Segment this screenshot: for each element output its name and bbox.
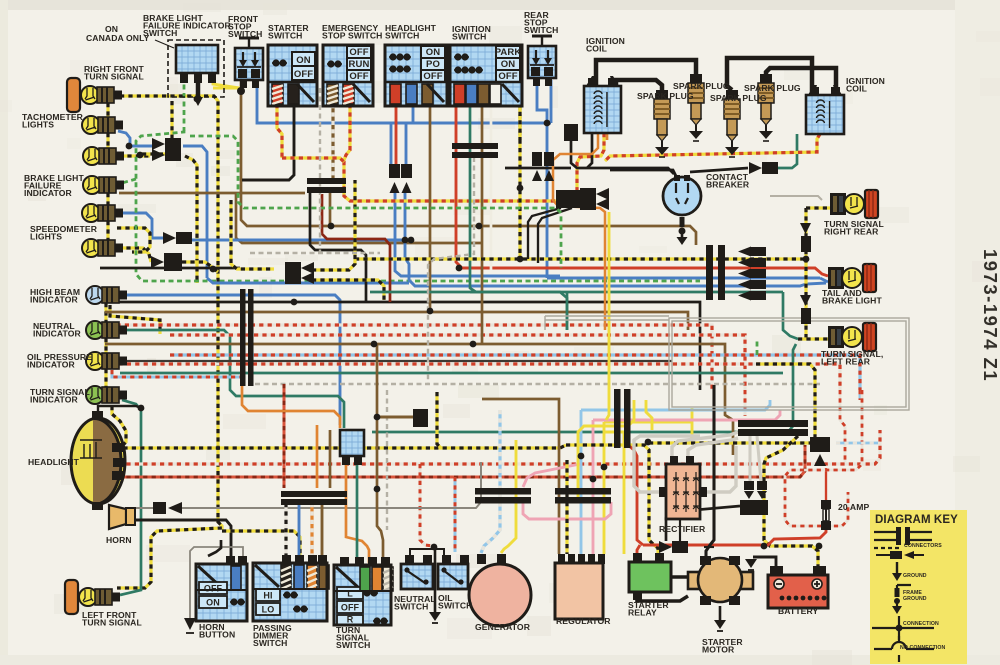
connector arrow centre 4: [738, 280, 751, 290]
connector box black small: [564, 124, 578, 141]
bulb: left front turn signal: [79, 588, 120, 606]
connector arrow coil 2: [580, 198, 596, 210]
wire: starter switch black drop: [242, 104, 294, 180]
switch: oil pressure: [438, 555, 469, 589]
regulator: [555, 554, 605, 619]
wire: left bar down bw: [284, 503, 287, 558]
rectifier: [659, 456, 707, 519]
wire: yb chain oil-ts: [104, 369, 107, 387]
svg-text:RUN: RUN: [349, 59, 370, 70]
junction 17: [210, 266, 217, 273]
svg-text:LIGHTS: LIGHTS: [22, 120, 54, 130]
wire: gray dash x320: [319, 88, 321, 253]
connector arrow speedo 2: [151, 256, 164, 268]
arrow right rear 1: [800, 223, 811, 234]
svg-text:OFF: OFF: [294, 69, 313, 80]
wire: black run y302: [103, 302, 700, 390]
wire: blue/red down: [859, 390, 862, 400]
wire: red/white dash y364: [110, 364, 840, 390]
wire: white pair down B: [757, 436, 761, 482]
wire: neutral bracket dash: [420, 464, 433, 546]
flasher relay: [340, 430, 364, 465]
connector box right rear 1: [801, 236, 811, 252]
lamp: turn signal right rear: [830, 190, 878, 218]
starter motor: [688, 556, 753, 605]
svg-text:ON: ON: [426, 47, 440, 58]
bulb: turn signal indicator: [86, 386, 127, 404]
wire: green dash right: [756, 340, 759, 355]
junction 10: [427, 308, 434, 315]
wire: rectifier white left: [634, 436, 700, 492]
svg-text:GROUND: GROUND: [903, 596, 927, 602]
svg-text:BREAKER: BREAKER: [706, 180, 750, 190]
wire: coil L black drop: [587, 133, 592, 168]
junction 13: [456, 265, 463, 272]
wire: long brown y344: [105, 344, 725, 390]
wire: oil pressure hatch down: [112, 370, 240, 377]
connector box up-arrow B: [401, 164, 412, 178]
wire: coil R green to breaker: [768, 134, 797, 168]
wire: orange bars to flasher: [242, 386, 340, 428]
wire: yellow/black main horizontal y259: [355, 257, 806, 260]
wire: black bar down: [310, 193, 366, 302]
wire: yb mid vertical x520 up: [518, 95, 521, 140]
connector arrow speedo: [163, 232, 176, 244]
wire: yellow horiz y432: [604, 432, 624, 448]
switch: ignition: [450, 45, 522, 106]
junction 11: [138, 405, 145, 412]
svg-text:TURN SIGNAL: TURN SIGNAL: [84, 72, 144, 82]
wire: yb chain speedo12: [106, 221, 109, 240]
wire: tach connector blue run: [183, 146, 207, 278]
wire: brown down x725: [725, 390, 733, 455]
wire: yellow/black L starter relay: [566, 445, 658, 553]
wire: yellow loop rect 2: [646, 400, 652, 430]
junction 14: [578, 453, 585, 460]
junction 27: [408, 237, 415, 244]
wire: yb right down x815: [756, 364, 815, 437]
wire: yb arrowconn right 2: [312, 280, 384, 300]
junction 6: [816, 543, 823, 550]
svg-text:HORN: HORN: [106, 535, 132, 545]
wire: green dash speedo: [136, 130, 700, 281]
svg-text:GENERATOR: GENERATOR: [475, 622, 531, 632]
wire: yellow x624 down: [623, 448, 626, 554]
wire: ts indicator yb: [112, 406, 126, 448]
wire: white pair down A: [748, 436, 751, 482]
svg-text:BUTTON: BUTTON: [199, 630, 235, 640]
bulb: high beam indicator: [86, 286, 127, 304]
svg-text:RELAY: RELAY: [628, 608, 657, 618]
junction 5: [645, 439, 652, 446]
spark plug 2: [688, 74, 704, 141]
connector bar pair left bottom: [281, 491, 347, 497]
wire: left bar down blue: [298, 503, 301, 558]
wire: lightblue generator feed: [481, 410, 500, 553]
wire: right front turn signal yellow/black: [117, 96, 222, 588]
wire: brown branch 236: [236, 193, 482, 243]
lamp: turn signal left rear: [828, 323, 876, 351]
wire: rw dash ladder right: [785, 390, 862, 526]
wire: headlight dark red feed: [118, 445, 805, 477]
wire: blue/red dash y355: [170, 355, 860, 390]
svg-text:INDICATOR: INDICATOR: [27, 360, 76, 370]
wire: brake fail switch green dash: [183, 76, 186, 131]
wire: speedo yb jumper: [117, 228, 150, 252]
wire: brake fail switch yellow: [213, 76, 240, 88]
svg-text:SWITCH: SWITCH: [268, 31, 303, 41]
switch: emergency stop: [323, 45, 373, 106]
wire: blue conn drop B2: [405, 193, 826, 286]
wire: coil L HT lead 1: [596, 60, 696, 86]
wire: headlight blue drop: [412, 106, 415, 123]
wire: ignition brown drop: [481, 106, 484, 344]
wire: yb chain fail-speedo: [106, 193, 109, 205]
connector bars lower mid: [614, 389, 621, 448]
connector arrow centre 5: [738, 291, 751, 301]
wire: left bar down brown: [321, 503, 324, 558]
bulb: right front turn signal: [81, 86, 122, 104]
junction 16: [601, 464, 608, 471]
wire: teal to left rear: [783, 292, 798, 339]
frame: harness gray extension: [545, 316, 669, 330]
wire: turn signal indicator teal: [120, 400, 141, 595]
connector box brown mid: [413, 409, 428, 427]
svg-text:COIL: COIL: [846, 84, 867, 94]
svg-text:ON: ON: [206, 598, 220, 608]
wire: coil R HT lead 1: [727, 58, 812, 95]
wire: yellow horiz y422: [604, 421, 692, 424]
junction 7: [761, 543, 768, 550]
junction 8: [371, 341, 378, 348]
wire: red/white dash y335: [170, 335, 745, 390]
connector horn box-arrow: [153, 502, 166, 514]
wire: brown box stub: [377, 416, 413, 419]
ground: bottom switches: [434, 550, 437, 612]
svg-text:ON: ON: [501, 59, 515, 70]
svg-text:SPARK PLUG: SPARK PLUG: [710, 93, 767, 103]
bulb: speedometer light 2: [82, 239, 123, 257]
wire: lb dash fuse: [836, 442, 880, 445]
switch: brake light failure indicator: [155, 40, 224, 106]
headlight: [71, 411, 125, 510]
connector battery arrow: [810, 437, 830, 452]
wire: gray dash y384: [255, 383, 820, 386]
wire: yellow/black battery curve: [764, 436, 818, 567]
connector arrow centre 3: [738, 269, 751, 279]
wire: yb diagonal 1: [231, 200, 274, 269]
wire: red/white dash y325: [108, 325, 712, 390]
svg-text:OFF: OFF: [349, 71, 368, 82]
wire: lightblue vert: [580, 410, 583, 554]
contact breaker: [663, 175, 701, 215]
wire: blue tail entry: [820, 278, 828, 282]
wire: high beam blue: [122, 295, 340, 425]
wire: yb chain neutral-oil: [104, 338, 107, 353]
wire: gray wire right rear: [770, 196, 822, 200]
wire: rectifier white up 2: [688, 438, 738, 456]
wire: rect bottom line: [676, 519, 680, 551]
wire: front stop blue drop: [257, 80, 551, 123]
horn: [109, 505, 135, 529]
svg-text:RIGHT REAR: RIGHT REAR: [824, 227, 879, 237]
svg-text:SPARK PLUG: SPARK PLUG: [637, 91, 694, 101]
wire: tach yb jumper: [142, 101, 172, 154]
bulb: tachometer light 1: [82, 116, 123, 134]
wire: gray dash ts: [386, 390, 388, 530]
wire: yb stub 437: [437, 392, 441, 448]
svg-text:INDICATOR: INDICATOR: [30, 395, 79, 405]
connector bar pair regulator: [555, 488, 611, 495]
wire: yellow generator feed: [501, 440, 516, 553]
connector big black box: [740, 500, 768, 515]
wire: headlight yellow/black feed: [115, 445, 566, 448]
wire: rectifier white right: [707, 446, 736, 492]
wire: speedo yb to main: [182, 262, 218, 272]
switch: passing dimmer: [253, 555, 329, 621]
svg-text:REGULATOR: REGULATOR: [556, 616, 611, 626]
svg-text:20 AMP: 20 AMP: [838, 502, 869, 512]
svg-text:1973-1974 Z1: 1973-1974 Z1: [980, 249, 1000, 382]
wire: blue conn drop A2: [395, 193, 560, 276]
svg-text:INDICATOR: INDICATOR: [24, 188, 73, 198]
wire: relay black down: [637, 592, 688, 601]
wire: coil L orange drop: [606, 133, 609, 140]
wire: yellow vert x692: [660, 408, 692, 443]
front stop brown dot: [237, 87, 245, 95]
junction 23: [194, 96, 201, 103]
wire: yb chain tach1-2: [106, 133, 109, 148]
connector arrow tach 1: [152, 138, 165, 150]
svg-text:GROUND: GROUND: [903, 573, 927, 579]
wire: yellow vert x604: [603, 422, 606, 554]
wire: canada switch black stem: [196, 76, 201, 100]
lens: left front turn signal: [65, 580, 78, 614]
ignition coil right: [806, 85, 844, 134]
wire: red hatch to connector 2: [577, 133, 604, 190]
switch: rear stop: [528, 36, 556, 86]
junction 3: [544, 120, 551, 127]
wire: speedo blue long: [190, 239, 403, 242]
svg-text:DIAGRAM KEY: DIAGRAM KEY: [875, 514, 958, 526]
wire: green dash mid: [190, 136, 561, 268]
svg-text:R: R: [347, 615, 354, 625]
wire: emergency red hatch drop: [344, 104, 556, 201]
junction 1: [126, 143, 133, 150]
battery: [768, 566, 828, 608]
connector arrow rectifier: [659, 541, 672, 553]
svg-text:HEADLIGHT: HEADLIGHT: [28, 457, 80, 467]
wire: pink vert: [592, 420, 595, 554]
connector white down-arrows: [744, 481, 754, 490]
svg-text:TURN SIGNAL: TURN SIGNAL: [82, 618, 142, 628]
svg-text:OFF: OFF: [423, 71, 442, 82]
wire: rear stop blue drop: [537, 80, 547, 278]
junction 19: [476, 223, 483, 230]
wire: orange coil drop: [553, 133, 605, 330]
connector bars left mid: [240, 289, 246, 386]
wire: teal long y292: [470, 291, 783, 294]
wire: rectifier white pair up: [672, 432, 738, 456]
wire: pink bar link: [523, 464, 580, 487]
wire: starter switch red hatch drop: [277, 104, 282, 158]
connector box rear stop A: [532, 152, 542, 166]
lamp: tail and brake light: [828, 264, 876, 292]
wire: teal y375: [120, 372, 783, 375]
wire: black west long: [505, 167, 571, 170]
junction 21: [374, 414, 381, 421]
wire: yellow brake fail run: [213, 87, 238, 90]
ignition coil left: [584, 76, 621, 133]
wire: speedometer blue feed: [118, 213, 163, 238]
connector arrow left mid 2: [285, 272, 301, 284]
wire: gray dash mid: [428, 157, 474, 384]
wire: red fuse top: [825, 468, 827, 500]
wire: headlight brown drop: [429, 106, 432, 311]
svg-text:SWITCH: SWITCH: [524, 25, 559, 35]
svg-text:OFF: OFF: [204, 584, 223, 594]
svg-text:LEFT REAR: LEFT REAR: [821, 357, 871, 367]
wire: yb branch dimmer: [222, 531, 300, 558]
wire: blue long to tail: [547, 277, 820, 280]
wire: horn button ground gray: [190, 547, 243, 618]
connector arrow tach 2: [152, 149, 165, 161]
svg-text:SWITCH: SWITCH: [253, 638, 288, 648]
frame ground: contact breaker: [681, 217, 684, 227]
ground arrow: horn button: [184, 618, 196, 630]
svg-text:SWITCH: SWITCH: [438, 601, 473, 611]
wire: neutral indicator teal: [122, 330, 344, 428]
wire: breaker to connector black: [690, 168, 748, 172]
junction 15: [590, 476, 597, 483]
wire: tachometer 2 yellow/black: [119, 154, 150, 157]
svg-text:CONNECTION: CONNECTION: [903, 621, 939, 627]
svg-text:NO CONNECTION: NO CONNECTION: [900, 645, 946, 651]
switch: horn button: [196, 556, 247, 621]
svg-text:LIGHTS: LIGHTS: [30, 232, 62, 242]
wire: neutral switch bracket: [410, 549, 444, 556]
wire: dark red bar run: [322, 194, 390, 302]
svg-text:SWITCH: SWITCH: [394, 602, 429, 612]
svg-text:SPARK PLUG: SPARK PLUG: [744, 83, 801, 93]
wire: ignition teal drop: [470, 107, 476, 292]
junction 9: [470, 341, 477, 348]
connector box rear stop B: [544, 152, 554, 166]
wire: yellow/black right run y445: [649, 441, 810, 444]
svg-text:SWITCH: SWITCH: [336, 640, 371, 650]
bulb: speedometer light 1: [82, 204, 123, 222]
wire: black conn drop B: [538, 208, 572, 263]
svg-text:CONNECTORS: CONNECTORS: [904, 543, 942, 549]
connector box up-arrow A: [389, 164, 400, 178]
svg-text:PARK: PARK: [495, 47, 522, 58]
ground: starter motor: [719, 606, 722, 620]
connector arrow coil 1: [580, 188, 596, 200]
junction 24: [803, 256, 810, 263]
connector box right rear 2: [801, 308, 811, 324]
wire: coil red/yellow hatch: [605, 134, 820, 161]
generator: [469, 554, 531, 626]
wire: left bar feeds brown: [329, 430, 332, 488]
wire: red to relay: [637, 545, 640, 553]
wire: red bottom run: [643, 528, 826, 545]
wire: yellow x609: [606, 212, 609, 420]
switch: turn signal: [334, 557, 393, 625]
connector arrow breaker: [749, 162, 762, 174]
lens: right front turn signal: [67, 78, 80, 112]
wire: rear stop blue 2: [550, 80, 553, 123]
svg-text:PO: PO: [426, 59, 440, 70]
wire: starter black: [671, 575, 688, 579]
wire: pink horiz: [593, 410, 780, 420]
spark plug 4: [758, 74, 774, 141]
wire: yb chain rf-tach: [106, 103, 109, 117]
wire: speedometer 2 yellow/black: [118, 248, 151, 262]
wire: oil switch dash: [454, 477, 457, 552]
wire: ignition white yellowblack drop: [518, 106, 521, 259]
frame: rear harness outline: [669, 318, 909, 410]
junction 18: [328, 223, 335, 230]
svg-text:COIL: COIL: [586, 44, 607, 54]
svg-text:HI: HI: [263, 591, 272, 601]
wire: headlight top black link: [98, 406, 141, 411]
switch: front stop: [235, 38, 263, 88]
wire: yb chain hb-neutral: [104, 303, 107, 322]
connector arrow left mid 1: [285, 262, 301, 274]
wire: gray dash mid 2: [250, 252, 380, 254]
arrow right rear 2: [800, 295, 811, 306]
wire: starter red hatch join: [282, 158, 344, 162]
wire: horn wire right: [182, 462, 481, 508]
bulb: oil pressure indicator: [86, 352, 127, 370]
switch: neutral: [401, 555, 433, 589]
wire: ignition white drop: [490, 106, 493, 270]
wire: brown ts drop: [377, 344, 383, 563]
svg-text:BATTERY: BATTERY: [778, 606, 818, 616]
wire: left bar down orange: [310, 503, 313, 558]
svg-text:INDICATOR: INDICATOR: [33, 329, 82, 339]
bulb: neutral indicator: [86, 321, 127, 339]
wire: horn black down: [126, 520, 231, 556]
wire: teal y432 long: [372, 344, 796, 432]
wire: tach connector yb run: [185, 156, 197, 283]
svg-text:MOTOR: MOTOR: [702, 645, 735, 655]
paper texture: [324, 100, 356, 107]
wire: bar brown stub: [329, 193, 332, 226]
wire: teal drop x567: [566, 292, 569, 330]
connector bar ignition: [452, 143, 498, 149]
wire: breaker left black: [610, 170, 676, 176]
wire: tachometer blue feed: [118, 131, 152, 146]
wire: brake fail indicator brown: [119, 192, 305, 195]
junction 2: [137, 152, 144, 159]
svg-text:RECTIFIER: RECTIFIER: [659, 524, 706, 534]
wire: red dash down x745: [744, 390, 747, 416]
wire: black west line: [571, 141, 674, 174]
wire: yellow loop rect: [578, 400, 634, 500]
wire: ignition red drop to tail: [456, 106, 828, 276]
wire: pink bar link 2: [523, 502, 611, 519]
fuse 20 amp: [821, 500, 831, 530]
junction 12: [291, 299, 298, 306]
wire: blue conn drop A: [390, 123, 393, 164]
wire: flasher teal: [356, 456, 359, 563]
bulb: brake light failure indicator: [83, 176, 124, 194]
junction 4: [517, 185, 524, 192]
junction 25: [517, 256, 524, 263]
connector arrow centre 2: [738, 258, 751, 268]
spark plug 1: [654, 90, 670, 157]
